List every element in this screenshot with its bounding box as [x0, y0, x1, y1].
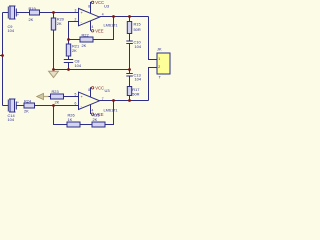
wire R19 to op-amp pin3	[40, 12, 79, 14]
resistor R17	[127, 87, 139, 97]
op-amp U3 top	[75, 4, 118, 30]
capacitor C8	[64, 58, 82, 68]
resistor R26	[67, 113, 80, 128]
wire ground rail	[54, 69, 130, 71]
wire op-amp pin2 to feedback column	[69, 22, 79, 45]
svg-text:4: 4	[92, 25, 94, 29]
node junction rail mid	[67, 68, 70, 71]
wire feedback node to R22	[69, 39, 81, 41]
wire right column to transducer pin 1	[149, 17, 158, 60]
svg-text:2K: 2K	[24, 109, 29, 114]
svg-text:2K: 2K	[57, 21, 62, 26]
wire R17 to bottom output row	[129, 96, 131, 101]
capacitor C10	[126, 39, 142, 49]
capacitor C9 electrolytic	[8, 6, 20, 33]
wire cap C9 to R19	[17, 12, 30, 14]
svg-text:JK: JK	[157, 47, 162, 52]
wire left column	[2, 13, 4, 106]
svg-text:U3: U3	[104, 4, 110, 9]
resistor R23	[51, 89, 64, 105]
ground	[49, 71, 59, 77]
svg-text:2K: 2K	[29, 17, 34, 22]
power port VCC bottom	[91, 86, 104, 91]
svg-text:U3: U3	[105, 88, 111, 93]
svg-text:8: 8	[88, 88, 90, 92]
wire R24 to op-amp pin6	[35, 105, 79, 107]
wire R21 to C8	[68, 56, 70, 60]
transducer JK connector	[157, 47, 170, 80]
svg-text:LM6171: LM6171	[104, 23, 118, 28]
node junction feedback top	[67, 38, 70, 41]
power port VEE bottom	[91, 112, 103, 117]
svg-text:2K: 2K	[82, 43, 87, 48]
wire VEE stub bottom op-amp	[90, 105, 92, 115]
svg-text:+: +	[17, 101, 19, 105]
svg-text:6: 6	[75, 102, 77, 106]
svg-text:R24: R24	[24, 98, 32, 103]
svg-text:R22: R22	[82, 33, 89, 38]
node junction rail left	[52, 68, 55, 71]
svg-text:3: 3	[75, 9, 77, 13]
wire R20 top lead	[53, 13, 55, 19]
resistor R25	[92, 113, 105, 128]
svg-text:5: 5	[75, 93, 77, 97]
node junction left edge	[1, 54, 4, 57]
wire C13 to R17	[129, 76, 131, 87]
ground arrow port	[37, 93, 44, 99]
svg-text:VCC: VCC	[95, 86, 104, 91]
wire VCC stub bottom op-amp	[90, 88, 93, 97]
svg-text:104: 104	[8, 117, 15, 122]
wire input stub left	[0, 55, 3, 57]
svg-text:LM6171: LM6171	[104, 107, 118, 112]
svg-text:50R: 50R	[134, 27, 141, 32]
wire transducer pin 2 column	[149, 68, 158, 101]
svg-text:2K: 2K	[55, 100, 60, 105]
wire bottom output row	[100, 100, 149, 102]
wire bottom row to cap C14	[3, 105, 9, 107]
wire C8 to rail	[68, 63, 70, 70]
op-amp U3 bottom	[75, 88, 118, 113]
resistor R22 feedback top	[80, 33, 93, 49]
wire R20 bottom lead to rail	[53, 30, 55, 70]
wire cap C14 to R24	[17, 105, 25, 107]
wire arrow tail	[48, 96, 51, 98]
svg-text:R15: R15	[134, 22, 141, 27]
wire top row to cap	[3, 12, 9, 14]
wire VCC stub top op-amp	[90, 2, 93, 13]
node junction rail right	[128, 68, 131, 71]
wire R15 to C10	[129, 34, 131, 42]
power port VEE top	[91, 29, 103, 34]
node junction top input	[52, 11, 55, 14]
svg-text:2K: 2K	[93, 117, 98, 122]
svg-text:2: 2	[158, 65, 160, 69]
wire top output row	[100, 16, 149, 18]
node junction bottom input	[52, 104, 55, 107]
wire R22 to output column	[93, 17, 114, 40]
svg-text:50R: 50R	[132, 91, 139, 96]
wire C10 to rail	[129, 44, 131, 70]
wire bottom feedback right	[105, 101, 114, 125]
svg-text:7: 7	[102, 97, 104, 101]
wire R26 to R25	[80, 124, 92, 126]
svg-text:104: 104	[135, 44, 142, 49]
resistor R21	[66, 44, 79, 57]
wire R23 to op-amp pin5	[64, 96, 79, 98]
capacitor C13	[126, 72, 142, 81]
svg-text:104: 104	[75, 63, 82, 68]
capacitor C14 electrolytic	[8, 99, 20, 122]
resistor R19	[29, 6, 40, 22]
svg-text:104: 104	[135, 76, 142, 81]
svg-text:R23: R23	[52, 89, 59, 94]
svg-text:VEE: VEE	[95, 29, 104, 34]
wire bottom feedback left	[54, 106, 68, 125]
wire rail to C13	[129, 70, 131, 74]
node junction output top 2	[128, 15, 131, 18]
svg-text:1K: 1K	[68, 117, 73, 122]
power port VCC top	[91, 0, 104, 5]
svg-text:VCC: VCC	[95, 0, 104, 5]
svg-text:1: 1	[158, 57, 160, 61]
wire VEE stub top op-amp	[90, 21, 92, 31]
resistor R15	[127, 22, 141, 34]
resistor R20	[51, 17, 64, 31]
svg-text:4: 4	[102, 13, 104, 17]
node junction bottom output 2	[128, 99, 131, 102]
svg-text:+: +	[17, 13, 19, 17]
svg-text:2: 2	[75, 18, 77, 22]
wire R15 top lead	[129, 17, 131, 22]
svg-text:104: 104	[8, 28, 15, 33]
node junction bottom output 1	[112, 99, 115, 102]
svg-text:2K: 2K	[72, 48, 77, 53]
resistor R24	[24, 98, 35, 113]
svg-text:R19: R19	[29, 6, 36, 11]
node junction output top 1	[112, 15, 115, 18]
svg-text:8: 8	[88, 4, 90, 8]
